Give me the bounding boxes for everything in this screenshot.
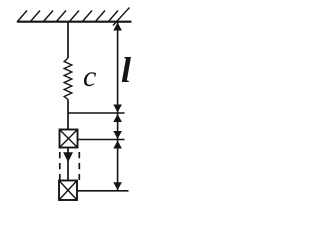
tick line from box 1 (node B)	[78, 139, 125, 141]
tick line at spring bottom level (node A)	[68, 112, 125, 114]
hatching of fixed support	[17, 8, 130, 26]
svg-text:l: l	[121, 50, 131, 90]
arrowhead down at bottom line	[113, 182, 122, 190]
arrowhead down at node B	[113, 131, 122, 139]
spring c (zigzag)	[64, 58, 72, 100]
wire from ceiling to spring top	[67, 22, 69, 58]
dashed guide left side	[59, 152, 61, 180]
arrowhead up below node B	[113, 141, 122, 149]
arrowhead down at node A	[113, 105, 122, 113]
wire through dashed section	[67, 148, 69, 181]
arrowhead up below node A	[113, 114, 122, 122]
dashed guide right side	[78, 152, 80, 180]
dimension line (vertical)	[117, 22, 119, 191]
crossed box 2 (lower mass block)	[59, 181, 77, 201]
bottom tick line from box 2	[77, 190, 129, 192]
fixed ceiling support line	[17, 21, 132, 23]
wire from spring bottom to box 1	[67, 100, 69, 130]
down arrow inside dashed section	[63, 152, 73, 162]
crossed box 1 (upper mass block)	[60, 130, 78, 148]
arrowhead up at ceiling	[113, 23, 122, 31]
svg-text:c: c	[83, 60, 96, 93]
